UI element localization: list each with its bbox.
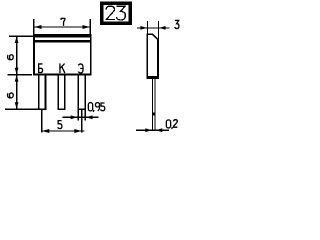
dimension 0,95: label digit 0	[88, 103, 92, 111]
dimension 0,2: label digit 0	[166, 120, 170, 128]
dimension 0,95: left extension (pin3 left edge)	[78, 110, 79, 120]
dimension 0,95: label digit 5	[101, 103, 105, 111]
dimension 0,2: label comma	[171, 127, 174, 129]
left dimension: bottom extension line	[5, 108, 38, 110]
dimension 0,95: left arrow pointing right	[71, 115, 78, 119]
dimension 3: label 3	[175, 20, 179, 28]
side view: bottom edge	[146, 76, 158, 79]
dimension 7: line	[35, 26, 90, 27]
body bottom bar	[33, 73, 92, 75]
case number box 23: outer black frame	[100, 2, 132, 26]
side view: lead crimp bump	[152, 113, 156, 116]
left dimension: arrow up at top	[15, 37, 19, 43]
dimension 5: right arrow	[74, 129, 81, 133]
pin label Б	[39, 64, 43, 73]
dimension 3: left arrow pointing right	[140, 26, 147, 30]
label 6 lower (rotated)	[8, 93, 14, 98]
side view: top edge	[146, 34, 153, 36]
dimension 0,95: right arrow pointing left	[86, 115, 93, 119]
left dimension: arrow down at bottom	[15, 102, 19, 108]
dimension 7: label 7	[61, 18, 65, 25]
dimension 0,2: label digit 2	[174, 120, 178, 128]
case number digit 3	[116, 6, 125, 20]
dimension 0,2: left arrow pointing right	[145, 128, 152, 132]
dimension 0,95: line	[63, 117, 99, 118]
left dimension: arrow down at middle	[15, 68, 19, 74]
dimension 0,2: line	[136, 130, 169, 131]
pin 2 (collector lead)	[58, 75, 66, 110]
pin 3 (emitter lead)	[77, 75, 86, 110]
dimension 3: right extension line	[158, 21, 159, 39]
transistor package front view: cap top bar	[33, 34, 91, 37]
dimension 0,95: label comma	[92, 110, 95, 112]
side view: lead left line	[152, 79, 153, 131]
dimension 0,95: right extension (pin3 right edge)	[85, 110, 86, 120]
pin 1 (base lead)	[38, 75, 46, 110]
case number box 23: inner white	[104, 5, 129, 21]
dimension 5: line	[42, 130, 85, 131]
left dimension vertical line	[16, 36, 17, 110]
dimension 5: left extension line (pin1 axis)	[41, 110, 42, 133]
dimension 7: extension line left	[33, 19, 34, 34]
case number digit 2	[106, 6, 115, 19]
dimension 7: left arrow	[34, 25, 41, 29]
dimension 7: right arrow	[83, 25, 90, 29]
left dimension: arrow up below middle	[15, 75, 19, 81]
cap second bar	[33, 40, 91, 43]
dimension 3: line	[137, 27, 169, 28]
body right edge	[90, 34, 92, 75]
dimension 3: right arrow pointing left	[159, 26, 166, 30]
dimension 5: right extension line (pin3 axis)	[81, 110, 82, 133]
label 6 upper (rotated)	[8, 55, 14, 60]
left dimension: top extension line	[9, 36, 33, 37]
dimension 3: left extension line	[147, 21, 148, 34]
dimension 0,2: right arrow pointing left	[156, 128, 163, 132]
body left edge	[33, 34, 35, 75]
dimension 7: extension line right	[90, 19, 91, 34]
side view: chamfer	[152, 34, 158, 40]
dimension 5: label 5	[58, 121, 62, 129]
dimension 0,95: label digit 9	[95, 103, 99, 111]
pin label К	[60, 63, 65, 73]
pin label Э	[78, 64, 83, 73]
side view: body left edge	[146, 34, 148, 79]
side view: body right edge	[157, 39, 159, 79]
side view: lead right line	[155, 79, 156, 131]
dimension 5: left arrow	[42, 129, 49, 133]
left dimension: middle extension line	[8, 74, 33, 75]
